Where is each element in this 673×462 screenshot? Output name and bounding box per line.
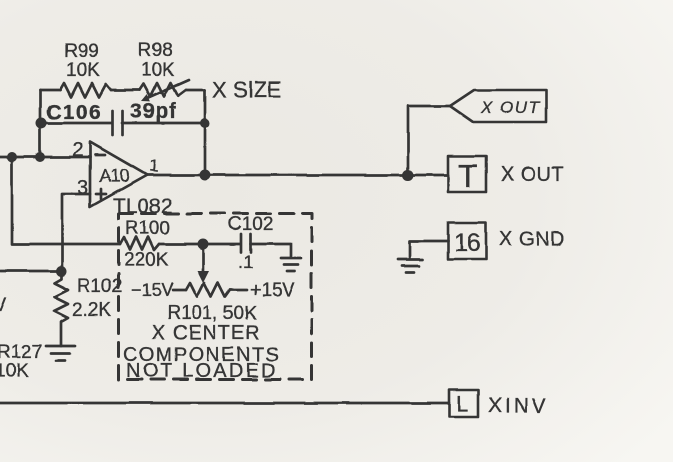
svg-text:+15V: +15V — [250, 280, 295, 301]
connector flag X OUT — [450, 90, 546, 122]
R98 select arrow — [146, 80, 189, 99]
svg-text:X SIZE: X SIZE — [212, 77, 282, 102]
connector box L — [449, 390, 478, 417]
wire R100 to C102 — [159, 243, 240, 246]
svg-text:10K: 10K — [141, 60, 175, 81]
svg-text:16: 16 — [454, 229, 480, 257]
svg-text:T: T — [458, 158, 478, 194]
svg-text:V: V — [0, 295, 7, 316]
svg-text:L: L — [456, 392, 468, 417]
svg-text:3: 3 — [77, 177, 88, 199]
svg-text:A10: A10 — [99, 166, 129, 186]
resistor R101 (potentiometer body) — [173, 289, 186, 292]
svg-text:10K: 10K — [0, 361, 29, 382]
svg-text:X OUT: X OUT — [480, 98, 541, 117]
node R102 junction — [56, 266, 67, 277]
svg-text:XINV: XINV — [488, 395, 549, 418]
op-amp U A10 triangle — [90, 142, 147, 207]
wire C106 right — [122, 122, 205, 125]
wire top rail right segment — [186, 89, 205, 92]
wire to X OUT flag — [408, 106, 450, 175]
wire right rail — [204, 90, 207, 175]
svg-text:−15V: −15V — [131, 280, 174, 300]
node output feedback junction — [200, 170, 211, 181]
svg-text:R100: R100 — [125, 218, 170, 239]
capacitor C106 — [111, 111, 114, 135]
wire C102 to ground — [251, 244, 292, 257]
svg-text:R101, 50K: R101, 50K — [167, 303, 257, 324]
svg-text:X OUT: X OUT — [501, 164, 565, 186]
node input junction A — [7, 152, 17, 162]
svg-text:39pf: 39pf — [130, 100, 177, 123]
svg-text:R102: R102 — [77, 276, 122, 297]
svg-text:2: 2 — [72, 139, 83, 161]
node C106 right junction — [200, 118, 210, 128]
svg-text:TL082: TL082 — [113, 195, 173, 218]
capacitor C102 — [240, 234, 243, 252]
wire XINV — [0, 402, 449, 405]
ground (X GND) — [398, 258, 423, 261]
resistor R98 — [139, 83, 186, 97]
wire X GND to ground — [410, 241, 448, 259]
node input junction B — [35, 152, 45, 162]
svg-text:X GND: X GND — [499, 229, 565, 251]
wiper arrow to R101 — [202, 249, 205, 272]
wire to R100 (down then right) — [12, 157, 120, 244]
svg-text:C102: C102 — [228, 214, 273, 235]
ground (C102) — [281, 257, 301, 260]
svg-text:NOT LOADED: NOT LOADED — [126, 360, 278, 382]
ground (R102) — [46, 345, 75, 348]
connector box T — [448, 156, 486, 192]
wire left rail (feedback network left side) — [39, 90, 42, 157]
svg-text:X CENTER: X CENTER — [152, 322, 261, 344]
resistor R102 — [54, 271, 68, 346]
wire inverting input — [0, 156, 90, 159]
svg-text:R99: R99 — [64, 41, 99, 62]
connector box 16 — [448, 223, 486, 259]
resistor R99 — [60, 83, 111, 97]
wire C106 left — [41, 122, 112, 125]
svg-text:C106: C106 — [46, 101, 102, 124]
svg-text:R127: R127 — [0, 342, 42, 363]
node R100/C102 junction — [198, 239, 209, 250]
resistor R100 — [120, 237, 159, 250]
plus sign — [96, 193, 106, 196]
wire from left edge to R102 node — [0, 270, 60, 273]
svg-text:220K: 220K — [124, 250, 169, 271]
dashed box COMPONENTS NOT LOADED — [119, 214, 312, 380]
svg-text:10K: 10K — [66, 60, 100, 81]
wire between R99 and R98 — [111, 89, 139, 92]
svg-text:2.2K: 2.2K — [72, 300, 111, 321]
minus sign — [95, 154, 105, 157]
wire op-amp output — [147, 174, 448, 177]
wire op-amp pin 3 — [62, 194, 90, 271]
svg-text:1: 1 — [148, 156, 159, 176]
svg-text:R98: R98 — [138, 40, 173, 61]
svg-text:.1: .1 — [238, 252, 253, 272]
node C106 left junction — [36, 118, 47, 129]
node output flag junction — [403, 170, 414, 181]
wire top rail left segment — [40, 89, 60, 92]
